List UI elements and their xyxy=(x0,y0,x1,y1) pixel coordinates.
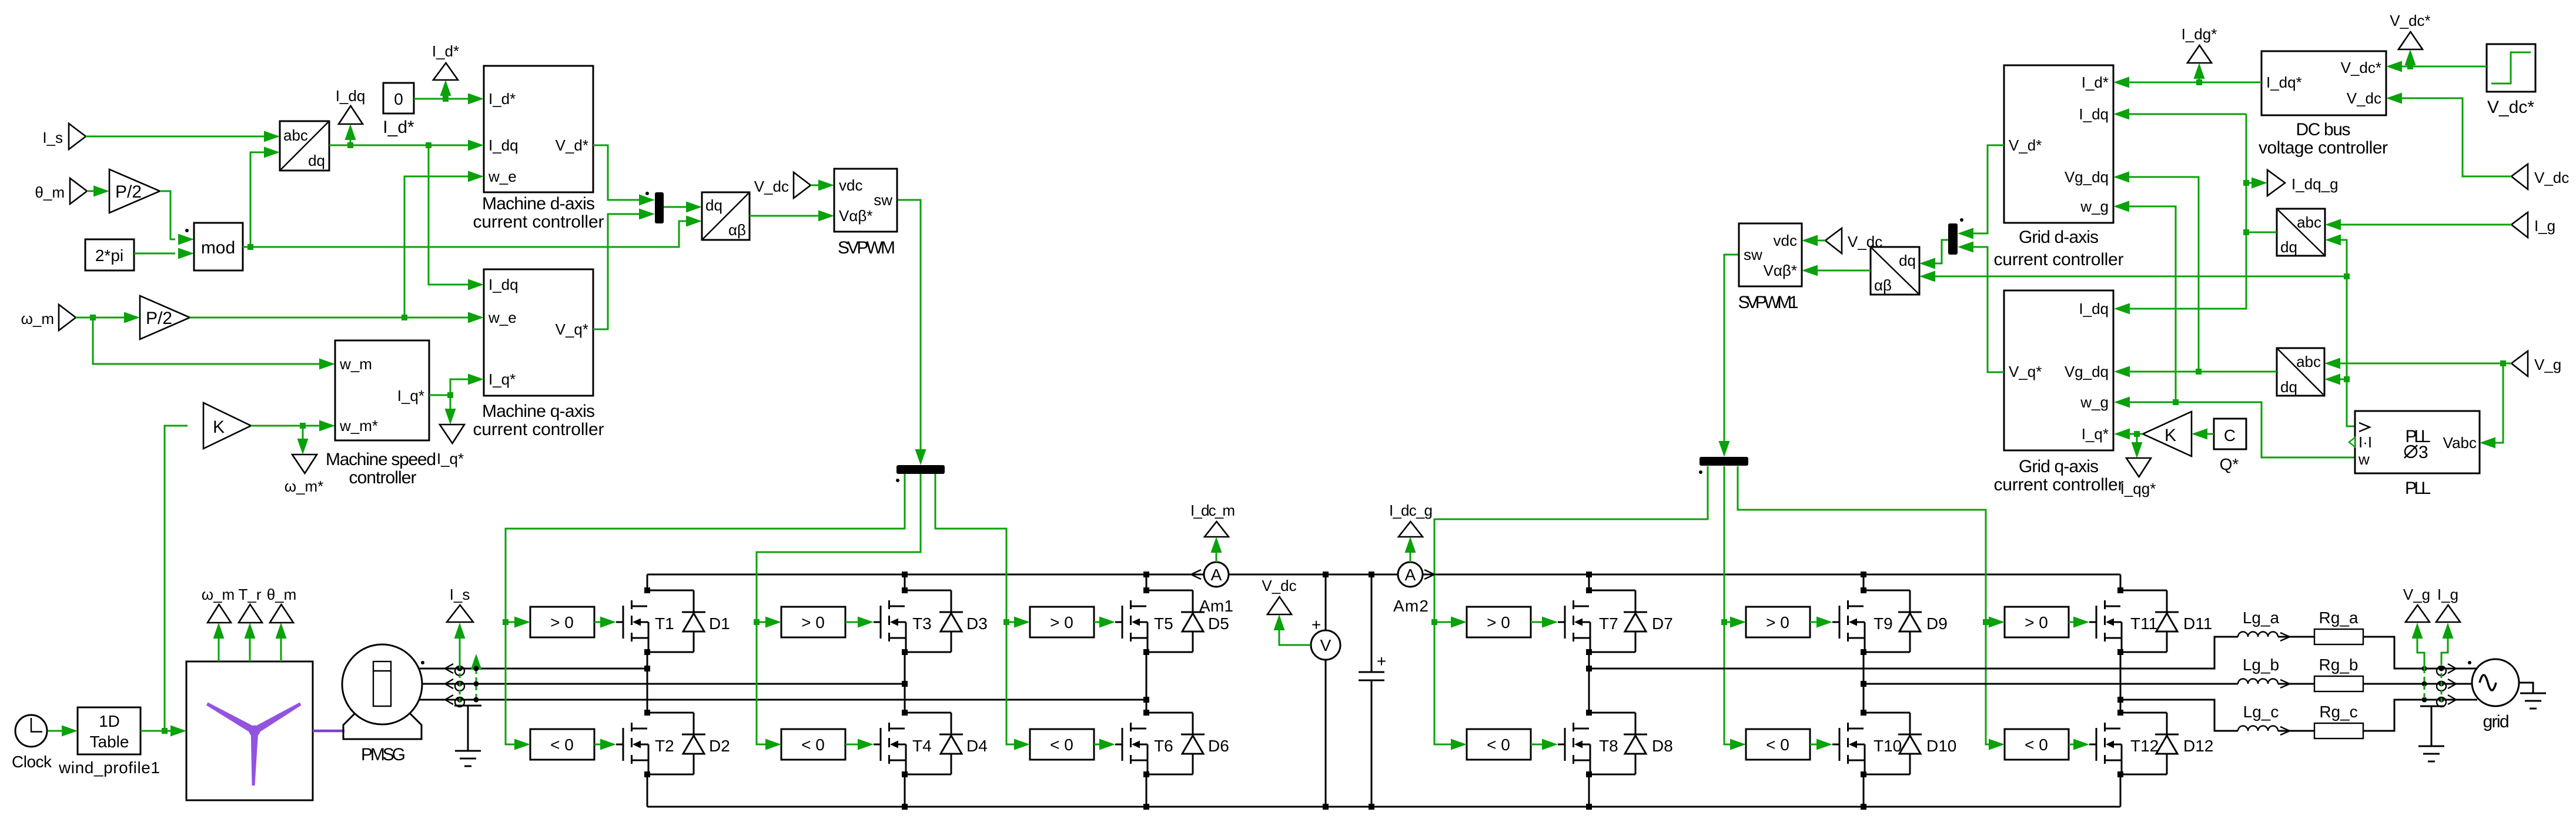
wire V_d* to mux xyxy=(593,145,640,200)
voltage probe dots grid xyxy=(2422,666,2427,671)
wire Vab* to SVPWM1 xyxy=(1818,270,1871,272)
comparator block >0 for T9 xyxy=(1746,607,1810,637)
svg-text:1D: 1D xyxy=(99,712,120,730)
comparator block >0 for T3 xyxy=(781,607,845,637)
svg-text:dq: dq xyxy=(2280,238,2297,256)
comparator block >0 for T11 xyxy=(2005,607,2069,637)
wire to I_dg* tag xyxy=(2199,79,2200,82)
svg-text:ω_m: ω_m xyxy=(21,310,54,328)
svg-text:I_dq*: I_dq* xyxy=(2266,73,2302,91)
svg-text:> 0: > 0 xyxy=(1487,613,1510,631)
svg-text:V: V xyxy=(1320,636,1332,654)
gain K reactive xyxy=(2143,412,2192,456)
svg-text:T8: T8 xyxy=(1599,737,1618,755)
wire V_d* grid to mux xyxy=(1973,145,2004,233)
svg-text:Vg_dq: Vg_dq xyxy=(2065,168,2109,186)
wire gate T5 xyxy=(1094,621,1099,623)
svg-text:V_q*: V_q* xyxy=(2009,363,2042,380)
svg-text:V_dc: V_dc xyxy=(1262,577,1296,594)
svg-text:V_dc: V_dc xyxy=(2347,89,2381,107)
svg-text:I_dq: I_dq xyxy=(2079,300,2109,318)
svg-text:I_s: I_s xyxy=(42,129,63,146)
wire gate bus machine leg2 xyxy=(757,474,921,744)
comparator block <0 for T8 xyxy=(1467,729,1531,760)
node phase c grid xyxy=(2117,697,2123,703)
wire w_e to d-axis xyxy=(404,176,468,318)
DC bus top rail xyxy=(647,574,2120,576)
wire K to I_q* xyxy=(2130,433,2143,435)
svg-text:K: K xyxy=(2164,426,2176,445)
svg-text:voltage controller: voltage controller xyxy=(2259,138,2388,158)
svg-text:I_dc_g: I_dc_g xyxy=(1389,502,1433,519)
tag I_s xyxy=(447,605,473,622)
svg-text:w_e: w_e xyxy=(488,309,517,326)
svg-text:+: + xyxy=(1312,616,1321,634)
port V_dc grid xyxy=(2511,164,2528,189)
svg-text:Am1: Am1 xyxy=(1199,597,1233,615)
svg-text:D4: D4 xyxy=(966,737,988,755)
svg-text:I_d*: I_d* xyxy=(489,90,516,108)
tag I_dc_m xyxy=(1205,522,1229,537)
svg-text:Clock: Clock xyxy=(12,753,52,771)
wire V_dc to SVPWM xyxy=(811,185,818,186)
phase wire c machine xyxy=(414,699,1146,701)
wire gate T8 xyxy=(1531,744,1542,746)
svg-text:Lg_c: Lg_c xyxy=(2243,703,2279,721)
transistor T12 with diode D12 xyxy=(2089,710,2179,777)
wire gate bus grid leg2 xyxy=(1724,466,1730,744)
svg-text:< 0: < 0 xyxy=(1766,736,1789,754)
wire gate T12 xyxy=(2069,744,2073,746)
svg-text:Machine d-axis: Machine d-axis xyxy=(482,194,595,213)
svg-text:2*pi: 2*pi xyxy=(95,246,123,265)
svg-text:abc: abc xyxy=(283,126,308,144)
wire gate bus machine leg1 xyxy=(506,474,905,744)
wire to I_q* tag xyxy=(450,395,451,410)
ground grid connector xyxy=(2420,706,2444,746)
wire Am2 to I_dc_g tag xyxy=(1410,553,1411,562)
svg-text:A: A xyxy=(1211,566,1222,584)
node phase a machine xyxy=(644,666,650,671)
wire gate T10 xyxy=(1810,744,1816,746)
phase a grid wire xyxy=(1589,637,2238,669)
wire K to w_m* xyxy=(251,425,319,427)
port I_g xyxy=(2511,212,2528,238)
svg-text:Rg_c: Rg_c xyxy=(2319,703,2357,721)
wire mod angle line xyxy=(243,221,686,247)
svg-text:Vabc: Vabc xyxy=(2443,434,2477,452)
svg-text:current controller: current controller xyxy=(473,420,604,439)
wire V_dc to controller xyxy=(2402,98,2511,176)
svg-text:I_g: I_g xyxy=(2534,217,2555,235)
wire to speed gain K xyxy=(165,426,188,731)
svg-text:Vg_dq: Vg_dq xyxy=(2065,363,2109,380)
svg-text:w: w xyxy=(2358,450,2370,468)
svg-text:D8: D8 xyxy=(1652,737,1673,755)
svg-text:current controller: current controller xyxy=(1994,250,2124,269)
svg-text:I_d*: I_d* xyxy=(432,42,459,60)
comparator block <0 for T12 xyxy=(2005,729,2069,760)
svg-text:> 0: > 0 xyxy=(1766,613,1789,631)
svg-text:αβ: αβ xyxy=(1874,276,1892,294)
svg-text:V_dc*: V_dc* xyxy=(2390,12,2430,29)
svg-text:I_q*: I_q* xyxy=(397,387,424,405)
voltmeter V xyxy=(1311,630,1340,660)
leg 1 machine wire xyxy=(647,574,648,807)
subsystem Machine speed controller xyxy=(335,340,429,440)
gain P/2 electrical angle xyxy=(109,169,160,213)
svg-text:ω_m: ω_m xyxy=(202,586,235,603)
svg-text:V_d*: V_d* xyxy=(556,136,588,154)
gain P/2 speed xyxy=(140,296,190,339)
svg-text:V_dc: V_dc xyxy=(1848,233,1882,250)
tag I_dg* xyxy=(2187,45,2212,63)
svg-text:I_dq: I_dq xyxy=(489,136,518,154)
svg-text:I·I: I·I xyxy=(2358,433,2372,451)
comparator block >0 for T1 xyxy=(530,607,594,637)
wire angle to abc/dq xyxy=(250,152,264,247)
svg-text:I_d*: I_d* xyxy=(383,118,414,137)
svg-text:3: 3 xyxy=(2418,443,2428,462)
svg-text:Table: Table xyxy=(90,733,129,751)
leg 2 grid wire xyxy=(1863,574,1865,807)
PMSG machine xyxy=(343,711,421,739)
svg-text:K: K xyxy=(213,417,225,437)
wire to I_qg* tag xyxy=(2136,434,2138,443)
subsystem SVPWM xyxy=(834,169,897,232)
inductor Lg_c xyxy=(2238,726,2278,731)
node phase b machine xyxy=(902,681,908,687)
svg-text:V_dc*: V_dc* xyxy=(2487,98,2534,117)
node squares on top rail xyxy=(902,572,908,577)
wire Vab* to SVPWM xyxy=(750,215,818,217)
wire I_g probe to tag xyxy=(2441,639,2448,665)
gain K speed reference xyxy=(203,403,251,449)
svg-text:V_d*: V_d* xyxy=(2009,136,2042,154)
subsystem Grid q-axis current controller xyxy=(2004,290,2113,450)
tag theta_m xyxy=(280,639,282,661)
current probe I_s rings xyxy=(445,664,453,704)
resistor Rg_b xyxy=(2314,676,2363,691)
svg-text:I_g: I_g xyxy=(2437,586,2458,603)
tag V_dc measured xyxy=(1267,597,1292,614)
svg-text:T3: T3 xyxy=(912,614,932,633)
wire gate bus grid leg1 xyxy=(1434,466,1708,744)
svg-text:abc: abc xyxy=(2296,353,2321,370)
wire V_g to abc/dq xyxy=(2340,363,2511,365)
wire mux to dq/ab grid xyxy=(1935,240,1948,263)
svg-text:+: + xyxy=(1377,652,1386,670)
transistor T11 with diode D11 xyxy=(2089,587,2179,655)
constant 0 xyxy=(383,83,414,113)
wire to I_d* tag xyxy=(445,96,447,99)
transform dq/alphabeta grid xyxy=(1871,247,1919,295)
wire I_dq out xyxy=(329,145,468,146)
transform abc/dq I_g xyxy=(2277,209,2325,256)
transform abc/dq V_g xyxy=(2277,348,2324,396)
transistor T6 with diode D6 xyxy=(1115,710,1205,777)
svg-text:> 0: > 0 xyxy=(550,613,574,631)
wire Am1 to I_dc_m tag xyxy=(1216,553,1217,562)
multiplexer bar grid xyxy=(1948,223,1958,255)
transform abc/dq machine xyxy=(280,121,329,171)
voltage probe dashed machine xyxy=(476,661,477,700)
wire to I_dq_g port xyxy=(2246,182,2252,184)
svg-text:T5: T5 xyxy=(1154,614,1173,633)
comparator block <0 for T10 xyxy=(1746,729,1810,760)
wire w_g distribution xyxy=(2130,402,2355,457)
svg-text:T2: T2 xyxy=(655,737,674,755)
svg-text:V_dc: V_dc xyxy=(754,178,789,195)
svg-text:w_g: w_g xyxy=(2080,393,2109,411)
svg-text:Machine q-axis: Machine q-axis xyxy=(482,402,595,421)
subsystem Grid d-axis current controller xyxy=(2004,65,2113,223)
tag omega_m* xyxy=(292,455,317,473)
svg-text:T10: T10 xyxy=(1874,737,1902,755)
wire I_dq to q-axis controller xyxy=(429,145,468,285)
svg-text:T_r: T_r xyxy=(239,586,262,603)
leg 3 grid wire xyxy=(2120,574,2122,807)
svg-text:dq: dq xyxy=(1899,252,1916,269)
wire V_g to PLL xyxy=(2495,363,2503,443)
wire abc/dq Ig out xyxy=(2246,232,2277,233)
wire gate T3 xyxy=(845,621,858,623)
transistor T10 with diode D10 xyxy=(1832,710,1922,777)
svg-text:> 0: > 0 xyxy=(801,613,825,631)
svg-text:dq: dq xyxy=(308,152,325,169)
node phase a grid xyxy=(1586,666,1592,671)
wire gate T2 xyxy=(594,744,600,746)
svg-text:θ_m: θ_m xyxy=(35,183,65,201)
comparator block <0 for T4 xyxy=(781,729,845,760)
wire omega_m to speed controller xyxy=(93,318,319,364)
wire gate T7 xyxy=(1531,621,1542,623)
tag I_qg* xyxy=(2126,458,2151,477)
svg-text:I_dq: I_dq xyxy=(489,276,518,293)
wire V_dc to SVPWM1 xyxy=(1818,240,1825,242)
svg-text:w_e: w_e xyxy=(488,168,517,185)
constant C xyxy=(2214,419,2246,449)
svg-text:Rg_a: Rg_a xyxy=(2319,609,2358,627)
svg-text:Lg_b: Lg_b xyxy=(2243,656,2279,674)
svg-text:V_q*: V_q* xyxy=(556,320,588,338)
tag V_g xyxy=(2406,605,2430,622)
svg-text:D5: D5 xyxy=(1208,614,1229,633)
subsystem SVPWM1 xyxy=(1739,223,1802,286)
constant 2*pi xyxy=(85,239,134,270)
capacitor DC link xyxy=(1359,574,1384,807)
subsystem Machine d-axis current controller xyxy=(484,66,593,192)
ground machine neutral xyxy=(454,706,481,751)
tag I_dc_g xyxy=(1399,522,1423,537)
svg-text:V_dc: V_dc xyxy=(2534,169,2569,186)
wire P/2 to mod xyxy=(160,191,175,239)
wire shaft PMSG xyxy=(313,730,344,733)
wind turbine block xyxy=(186,661,313,800)
wire w_e line xyxy=(190,317,468,319)
svg-text:vdc: vdc xyxy=(1774,232,1797,249)
turbine blades xyxy=(206,703,302,786)
svg-text:> 0: > 0 xyxy=(2025,613,2048,631)
resistor Rg_a xyxy=(2314,629,2363,644)
svg-text:DC bus: DC bus xyxy=(2296,120,2351,139)
clock xyxy=(15,715,47,747)
svg-text:< 0: < 0 xyxy=(2025,736,2048,754)
wire gate bus machine leg3 xyxy=(935,474,1014,744)
wire I_s probe to tag xyxy=(459,639,461,669)
svg-text:Machine speed: Machine speed xyxy=(326,450,436,469)
svg-text:I_dc_m: I_dc_m xyxy=(1190,502,1235,519)
wire 2*pi to mod xyxy=(134,253,175,255)
wire clock to table xyxy=(48,730,62,732)
svg-text:D3: D3 xyxy=(966,614,988,633)
transistor T8 with diode D8 xyxy=(1558,710,1647,777)
inductor Lg_a xyxy=(2238,632,2278,637)
wire mux to dq/ab xyxy=(664,206,686,208)
tag I_d* xyxy=(433,63,458,80)
svg-text:Grid q-axis: Grid q-axis xyxy=(2019,457,2099,476)
wire SVPWM sw to demux xyxy=(897,200,921,450)
svg-text:sw: sw xyxy=(874,191,892,209)
transistor T5 with diode D5 xyxy=(1115,587,1205,655)
svg-text:T4: T4 xyxy=(912,737,932,755)
svg-text:SVPWM: SVPWM xyxy=(838,238,895,258)
svg-text:ω_m*: ω_m* xyxy=(285,477,324,495)
svg-text:mod: mod xyxy=(201,238,235,258)
svg-text:< 0: < 0 xyxy=(1487,736,1510,754)
lookup table wind_profile1 xyxy=(78,707,140,754)
leg 2 machine wire xyxy=(904,574,906,807)
multiplexer bar machine xyxy=(655,192,664,223)
subsystem DC bus voltage controller xyxy=(2261,51,2386,115)
transistor T4 with diode D4 xyxy=(874,710,963,777)
svg-text:I_dq: I_dq xyxy=(2079,105,2109,123)
demultiplexer bar grid gates xyxy=(1700,457,1748,466)
phase wire b machine xyxy=(414,683,905,685)
svg-text:T7: T7 xyxy=(1599,614,1618,633)
svg-text:P/2: P/2 xyxy=(115,182,142,202)
tag I_q* xyxy=(440,425,464,443)
leg 3 machine wire xyxy=(1146,574,1148,807)
svg-text:I_dg*: I_dg* xyxy=(2182,25,2217,43)
wire angle distribution xyxy=(2341,240,2355,426)
wire SVPWM1 sw to demux xyxy=(1724,255,1739,442)
svg-text:αβ: αβ xyxy=(728,221,746,239)
svg-text:Grid d-axis: Grid d-axis xyxy=(2019,228,2099,247)
svg-text:< 0: < 0 xyxy=(550,736,574,754)
svg-text:Rg_b: Rg_b xyxy=(2319,656,2358,674)
svg-text:T12: T12 xyxy=(2130,737,2159,755)
wire Vg_dq distribution xyxy=(2130,371,2277,373)
svg-text:I_q*: I_q* xyxy=(437,450,464,467)
wire omega_m to P/2 xyxy=(76,317,124,319)
demultiplexer bar machine gates xyxy=(896,465,945,474)
wire I_dq distribution xyxy=(2129,113,2246,115)
wire table to turbine xyxy=(140,730,170,732)
svg-text:PLL: PLL xyxy=(2405,479,2431,498)
svg-text:I_s: I_s xyxy=(450,586,470,603)
svg-text:Vαβ*: Vαβ* xyxy=(1764,262,1797,279)
svg-text:current controller: current controller xyxy=(1994,475,2124,494)
tag omega_m xyxy=(218,639,220,661)
transform dq/alphabeta machine xyxy=(702,192,750,240)
svg-text:D2: D2 xyxy=(709,737,730,755)
subsystem Machine q-axis current controller xyxy=(484,269,593,396)
port V_dc svpwm xyxy=(794,172,811,198)
wire to omega_m* tag xyxy=(302,426,304,440)
svg-text:Q*: Q* xyxy=(2220,455,2239,473)
ammeter Am2 xyxy=(1398,562,1423,587)
transistor T3 with diode D3 xyxy=(874,587,963,655)
comparator block <0 for T6 xyxy=(1030,729,1094,760)
svg-text:V_g: V_g xyxy=(2534,356,2561,373)
port V_dc svpwm1 xyxy=(1825,228,1842,253)
phase b grid wire xyxy=(1864,683,2238,685)
wire gate bus grid leg3 xyxy=(1738,466,1989,744)
comparator block >0 for T5 xyxy=(1030,607,1094,637)
svg-text:D7: D7 xyxy=(1652,614,1673,633)
svg-text:SVPWM1: SVPWM1 xyxy=(1738,293,1799,312)
wire I_g to abc/dq xyxy=(2341,224,2511,226)
svg-text:V_g: V_g xyxy=(2403,586,2430,603)
port I_s xyxy=(69,123,86,149)
wire gate T1 xyxy=(594,621,600,623)
port V_g xyxy=(2511,351,2528,376)
svg-text:w_m*: w_m* xyxy=(339,417,378,435)
svg-text:P/2: P/2 xyxy=(146,309,172,328)
svg-text:current controller: current controller xyxy=(473,212,604,232)
svg-text:C: C xyxy=(2224,426,2236,445)
wire gate T6 xyxy=(1094,744,1099,746)
ammeter Am1 xyxy=(1204,562,1229,587)
svg-text:w_m: w_m xyxy=(339,355,372,373)
resistor Rg_c xyxy=(2314,723,2363,739)
svg-text:< 0: < 0 xyxy=(801,736,825,754)
svg-text:> 0: > 0 xyxy=(1050,613,1073,631)
port I_dq_g xyxy=(2267,170,2285,196)
svg-text:abc: abc xyxy=(2297,213,2321,231)
svg-text:D1: D1 xyxy=(709,614,730,633)
wire V_g probe to tag xyxy=(2417,639,2424,669)
svg-text:T11: T11 xyxy=(2130,614,2157,633)
wire I_dq* to I_d* xyxy=(2129,82,2261,83)
svg-text:D11: D11 xyxy=(2183,614,2212,633)
svg-text:Vαβ*: Vαβ* xyxy=(839,207,872,225)
svg-text:sw: sw xyxy=(1744,246,1762,263)
inductor Lg_b xyxy=(2238,679,2278,684)
svg-text:dq: dq xyxy=(705,196,722,214)
svg-text:wind_profile1: wind_profile1 xyxy=(58,758,160,777)
svg-text:w_g: w_g xyxy=(2080,198,2109,215)
port theta_m xyxy=(70,178,87,204)
svg-text:D9: D9 xyxy=(1926,614,1948,633)
phase c grid wire xyxy=(2120,700,2238,731)
svg-text:A: A xyxy=(1405,566,1416,584)
svg-text:T6: T6 xyxy=(1154,737,1173,755)
svg-text:D10: D10 xyxy=(1926,737,1956,755)
ground grid right xyxy=(2519,683,2533,693)
node phase c machine xyxy=(1143,697,1149,703)
tag T_r xyxy=(249,639,251,661)
tag I_g xyxy=(2436,605,2460,622)
port omega_m xyxy=(59,305,76,330)
node phase b grid xyxy=(1861,681,1866,687)
svg-text:I_qg*: I_qg* xyxy=(2120,480,2156,497)
step source V_dc* xyxy=(2487,44,2535,92)
voltmeter V_dc wire xyxy=(1325,574,1327,807)
wire V_q* to mux xyxy=(593,214,640,329)
wire voltmeter to V_dc tag xyxy=(1279,630,1310,645)
